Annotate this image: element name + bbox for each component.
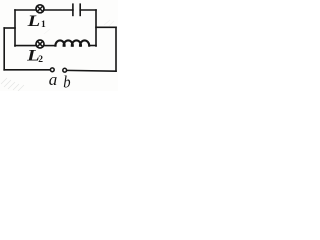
svg-text:L: L bbox=[26, 12, 40, 29]
svg-text:1: 1 bbox=[41, 20, 46, 30]
svg-text:2: 2 bbox=[38, 55, 43, 65]
svg-text:b: b bbox=[63, 73, 70, 91]
svg-text:a: a bbox=[49, 70, 58, 89]
